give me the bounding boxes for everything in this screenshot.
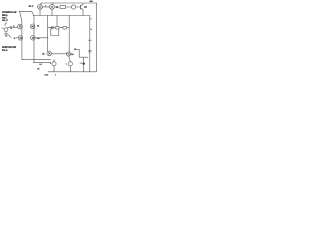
arrow tick	[80, 62, 82, 64]
input arc mark	[5, 23, 7, 26]
transistor Q6	[31, 36, 36, 41]
wire Q1 to rail	[40, 3, 41, 4]
transistor Q3	[18, 24, 23, 29]
wire R5 to Q7	[66, 6, 72, 8]
transistor Q4	[18, 36, 23, 41]
transistor Q8	[47, 51, 52, 56]
wire left column	[21, 21, 23, 60]
wire mid-left column	[33, 16, 35, 63]
transistor Q2	[50, 4, 55, 9]
wire Q4 base	[16, 37, 18, 39]
output jack B2	[68, 62, 72, 66]
wire Q8 to D3	[52, 53, 67, 55]
wire input to C1	[8, 27, 10, 29]
transistor Q1	[38, 4, 43, 9]
wire left column bend	[20, 11, 22, 20]
transistor Q5	[30, 24, 35, 29]
mid rail	[33, 15, 90, 17]
transistor Q7 body	[71, 5, 75, 9]
svg-text:R1 C: R1 C	[29, 5, 34, 8]
capacitor C10 body	[82, 62, 85, 66]
wire upper horizontal	[19, 10, 31, 12]
wire pot drop	[77, 49, 88, 57]
ground	[4, 32, 10, 38]
wire C1 to Q3 base	[12, 27, 17, 29]
bottom rail	[48, 71, 97, 73]
wire B1 to rail	[53, 66, 55, 72]
wire Q2 to rail	[52, 3, 53, 4]
svg-text:5% cc: 5% cc	[2, 49, 8, 52]
diode D2	[63, 26, 67, 29]
transistor Q7 bar	[79, 5, 81, 9]
wire Q1-Q2	[42, 6, 49, 8]
wire Q6 collector	[35, 37, 48, 39]
wire C10 to rail	[83, 65, 85, 72]
junction circle	[51, 27, 53, 29]
capacitor C1	[10, 26, 11, 29]
transistor Q9	[66, 52, 70, 56]
capacitor C7	[89, 50, 92, 52]
wire B1 up	[53, 60, 55, 62]
wire lower left horizontal	[22, 59, 51, 61]
right border wire	[96, 3, 98, 72]
resistor R5	[60, 6, 66, 9]
capacitor C10 plus	[83, 57, 85, 62]
output jack B1	[52, 62, 56, 66]
wire Q2 emitter	[51, 9, 53, 15]
input tip tick	[1, 27, 3, 29]
wire right-mid column	[68, 16, 70, 53]
transistor Q7 collector	[80, 3, 83, 6]
top rail	[41, 2, 96, 4]
wire center column	[47, 16, 49, 52]
wire diode row	[48, 27, 70, 29]
wire jog	[32, 11, 34, 15]
wire B2 to rail	[69, 66, 71, 72]
wire bypass loop	[51, 29, 59, 36]
svg-text:iss 3: iss 3	[2, 19, 8, 22]
diode D1	[55, 26, 59, 29]
transistor Q7 emitter	[80, 8, 83, 16]
wire short drop	[56, 16, 58, 27]
input jack J1	[4, 28, 8, 32]
wire Q7 to bar	[76, 6, 81, 8]
wire right column	[89, 16, 91, 72]
node plus mark	[89, 39, 91, 41]
wire Q1 emitter	[39, 9, 41, 15]
wire lower mid horizontal	[34, 62, 51, 64]
wire Q9 down	[69, 56, 71, 62]
